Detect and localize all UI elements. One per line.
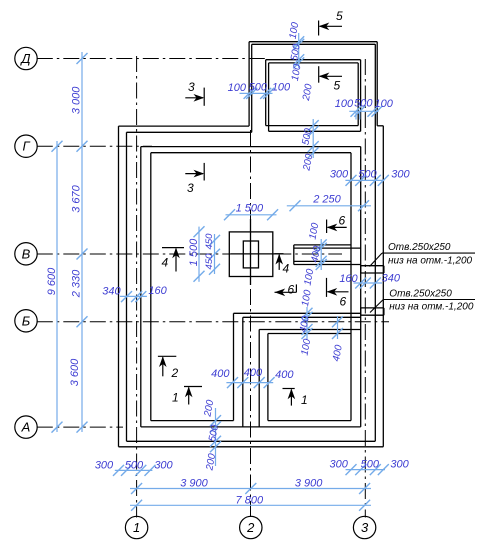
dim line 3000/3670/2330/3600 vertical [81, 52, 83, 432]
axis line 3 (vertical) [364, 59, 366, 518]
ticks on 7800 line [131, 500, 142, 511]
svg-text:500: 500 [361, 458, 380, 470]
bottom wall inner edge [141, 426, 361, 428]
ticks bump bottom vertical chain [308, 120, 319, 131]
svg-text:В: В [22, 246, 31, 261]
axis line V (horizontal) [37, 253, 342, 255]
dim chain bump top vertical 100/500/100 [298, 33, 300, 68]
dim line 7800 bottom [130, 504, 371, 506]
svg-text:300: 300 [330, 458, 349, 470]
svg-text:2 330: 2 330 [71, 269, 83, 298]
right wall outer footing [382, 126, 384, 447]
interior wall west footing [233, 313, 235, 420]
svg-text:450: 450 [204, 233, 215, 250]
svg-text:400: 400 [275, 369, 294, 381]
svg-text:А: А [21, 420, 31, 435]
marker 6 right [326, 278, 328, 297]
svg-text:3: 3 [187, 181, 194, 195]
svg-text:3 600: 3 600 [69, 358, 81, 386]
svg-text:2 250: 2 250 [312, 194, 341, 206]
axis bubble B [15, 310, 37, 332]
dim line 2250 [287, 205, 371, 207]
axis bubble 2 [240, 516, 262, 538]
bump left outer edge [251, 44, 253, 132]
svg-text:3 670: 3 670 [71, 184, 83, 212]
svg-text:300: 300 [390, 458, 409, 470]
dim chain bump bottom vertical 200/500/200 [312, 119, 314, 158]
axis bubble 3 [353, 516, 375, 538]
svg-text:2: 2 [171, 366, 179, 380]
svg-text:1 500: 1 500 [188, 238, 200, 266]
svg-text:3 900: 3 900 [295, 477, 323, 489]
top wall inner edge [141, 146, 361, 148]
svg-text:340: 340 [382, 273, 401, 285]
right wall inner edge [360, 147, 362, 427]
svg-text:160: 160 [339, 273, 358, 285]
dim line 1500 vertical column [198, 227, 200, 282]
stub wall line 1 [294, 244, 351, 246]
ticks bottom wall vertical chain [210, 415, 221, 426]
svg-text:300: 300 [391, 168, 410, 180]
ticks on second vertical line [77, 53, 88, 64]
svg-text:1: 1 [133, 520, 140, 535]
svg-text:300: 300 [95, 459, 114, 471]
svg-text:3 900: 3 900 [180, 477, 208, 489]
axis 2 solid segment through column [250, 219, 252, 285]
ticks bump right chain [351, 106, 362, 117]
ticks stub chain [316, 239, 327, 250]
top wall inner footing [151, 152, 351, 154]
ticks 2250 [290, 200, 301, 211]
svg-text:500: 500 [125, 459, 144, 471]
svg-text:6: 6 [340, 295, 347, 309]
svg-text:100: 100 [272, 82, 291, 94]
axis bubble G [15, 135, 37, 157]
pit top inner footing [268, 333, 351, 335]
bottom wall outer footing [119, 446, 384, 448]
axis line B (horizontal) [37, 321, 389, 323]
svg-text:Отв.250х250: Отв.250х250 [389, 289, 452, 300]
opening 1 box [361, 266, 384, 273]
svg-text:Д: Д [19, 51, 30, 66]
axis V solid segment through column [231, 253, 284, 255]
marker 1 left [184, 386, 202, 388]
right wall outer edge [374, 44, 376, 441]
svg-text:400: 400 [244, 367, 263, 379]
marker 6 upper [326, 220, 328, 234]
svg-text:160: 160 [148, 285, 167, 297]
marker 4 right [275, 253, 284, 255]
leader 2 diagonal [370, 300, 383, 313]
marker 4 left [162, 247, 184, 249]
axis bubble D [15, 47, 37, 69]
svg-text:300: 300 [154, 459, 173, 471]
marker 5 top [318, 21, 320, 36]
leader 2 shelf [383, 299, 475, 301]
dim chain B-pit 400 vertical [337, 316, 339, 339]
svg-text:9 600: 9 600 [46, 267, 58, 295]
svg-text:500: 500 [358, 169, 377, 181]
svg-text:низ на отм.-1,200: низ на отм.-1,200 [388, 255, 473, 266]
svg-text:300: 300 [330, 168, 349, 180]
axis line G (horizontal) [37, 145, 152, 147]
left wall outer footing [118, 126, 120, 447]
dim chain right bottom 300/500/300 [346, 469, 385, 471]
ticks 450 chain [209, 235, 220, 246]
leader 1 shelf [382, 252, 475, 254]
svg-text:2: 2 [246, 520, 255, 535]
pit top outer footing [234, 312, 361, 314]
bump top inner footing [269, 62, 359, 64]
dim chain pit top vertical 100/400/100 [306, 307, 308, 339]
ticks on 9600 line [52, 141, 63, 152]
dim chain bump left 100/500/100 [240, 92, 273, 94]
interior wall west edge [242, 317, 244, 427]
column footing square [229, 232, 272, 277]
axis bubble 1 [125, 516, 147, 538]
axis line D (horizontal) [37, 58, 265, 60]
stub wall line 2 [294, 247, 361, 249]
axis line A (horizontal) [37, 426, 123, 428]
ticks on 3900 line [131, 483, 142, 494]
svg-text:3: 3 [361, 520, 369, 535]
ticks pit top chain [302, 308, 313, 319]
marker 2 [158, 355, 176, 357]
bump bottom inner edge line [269, 130, 361, 132]
pit top outer edge [243, 316, 361, 318]
marker 1 right [283, 388, 295, 390]
svg-text:Г: Г [22, 139, 30, 154]
svg-text:Б: Б [22, 313, 31, 328]
stub wall line 4 [294, 264, 361, 266]
ticks 1500 horizontal [224, 209, 235, 220]
svg-text:500: 500 [354, 97, 373, 109]
ticks right top chain [346, 175, 357, 186]
axis line 2 (vertical) [250, 130, 252, 518]
extension lines under bump-right chain [355, 111, 357, 119]
ticks bump top vertical chain [293, 36, 304, 47]
svg-text:340: 340 [102, 286, 121, 298]
bump left inner footing [268, 63, 270, 131]
dim line 9600 vertical [56, 141, 58, 432]
svg-text:4: 4 [162, 256, 169, 270]
dim line 450/450 column [214, 234, 216, 274]
svg-text:5: 5 [334, 79, 341, 93]
axis line 1 (vertical) [136, 56, 138, 518]
top wall outer footing [119, 125, 250, 127]
svg-text:100: 100 [375, 98, 394, 110]
svg-text:Отв.250х250: Отв.250х250 [388, 242, 451, 253]
bump left inner edge [265, 60, 267, 126]
svg-text:1 500: 1 500 [236, 202, 264, 214]
dim chain stub vertical 100/400/100 [320, 239, 322, 270]
dim chain left bottom 300/500/300 [115, 469, 153, 471]
dim line 3900+3900 bottom [130, 488, 371, 490]
bump top outer edge [252, 43, 376, 45]
left wall inner edge [140, 147, 142, 427]
marker 5 in bump [318, 66, 320, 83]
ticks 1500 vertical [194, 226, 205, 237]
dim chain bump right 100/500/100 [349, 110, 378, 112]
axis bubble A [15, 416, 37, 438]
bump top inner edge [266, 59, 361, 61]
marker 3 top: bar, shaft, arrowhead [203, 88, 205, 106]
svg-text:1: 1 [172, 391, 179, 405]
interior wall east edge [258, 330, 260, 427]
dim chain right 300/500/300 top [345, 179, 384, 181]
svg-text:6: 6 [339, 214, 346, 228]
stub wall end cap [293, 245, 295, 265]
svg-text:400: 400 [211, 368, 230, 380]
svg-text:500: 500 [249, 82, 268, 94]
ticks interior wall chain [227, 377, 238, 388]
ticks left bottom chain [113, 465, 124, 476]
svg-text:450: 450 [204, 253, 215, 270]
pit top inner edge [259, 329, 361, 331]
marker 6 left [295, 284, 297, 292]
column section rect [243, 241, 258, 268]
svg-text:100: 100 [335, 98, 354, 110]
axis bubble V [15, 243, 37, 265]
svg-text:3 000: 3 000 [71, 86, 83, 114]
opening 2 box [361, 308, 384, 315]
bump top outer footing [249, 41, 377, 43]
dim chain left mid 340/160 [120, 295, 147, 297]
dim chain right mid 160/340 [354, 282, 383, 284]
ticks left mid chain [121, 291, 132, 302]
right wall inner footing [350, 153, 352, 421]
footing step at bump junction [377, 125, 383, 127]
bump left outer footing [248, 42, 250, 126]
top wall outer edge [127, 131, 252, 133]
svg-text:3: 3 [188, 80, 195, 94]
dim chain interior wall 400/400/400 [226, 382, 273, 384]
stub wall line 3 [294, 260, 351, 262]
ticks right bottom chain [346, 464, 357, 475]
dim chain bottom wall vertical 200/500/200 [215, 408, 217, 466]
bump right outer footing [376, 42, 378, 126]
svg-text:низ на отм.-1,200: низ на отм.-1,200 [389, 301, 474, 312]
svg-text:7 800: 7 800 [236, 495, 264, 507]
dim line 1500 horizontal [226, 214, 277, 216]
bump bottom inner footing line [266, 125, 359, 127]
svg-text:5: 5 [336, 9, 343, 23]
marker 3 lower [203, 163, 205, 181]
bottom wall inner footing left room [151, 420, 234, 422]
bump right inner edge [360, 60, 362, 132]
svg-text:1: 1 [301, 393, 308, 407]
ticks right mid chain [355, 278, 366, 289]
svg-text:6: 6 [288, 283, 295, 297]
leader 1 diagonal [370, 253, 383, 266]
interior wall east footing [267, 334, 269, 421]
left wall outer edge [126, 132, 128, 441]
ticks bump left chain [244, 88, 255, 99]
left wall inner footing [150, 153, 152, 421]
bottom wall outer edge [127, 440, 376, 442]
bottom wall inner footing right room [268, 420, 351, 422]
ticks B-pit chain [332, 316, 343, 327]
svg-text:100: 100 [228, 82, 247, 94]
bump right inner footing [357, 63, 359, 126]
svg-text:4: 4 [283, 262, 290, 276]
